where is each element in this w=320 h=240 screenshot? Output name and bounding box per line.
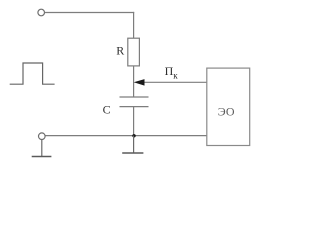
pulse waveform symbol [10, 63, 55, 84]
terminal (bottom-left) [39, 133, 46, 140]
wire top horizontal [45, 12, 135, 14]
wire junction to center ground [133, 136, 135, 153]
svg-text:C: C [103, 102, 111, 116]
bottom wire horizontal [45, 135, 207, 137]
svg-text:R: R [116, 44, 124, 58]
wire ground stem left [41, 140, 43, 157]
ground bar (left) [32, 156, 52, 158]
oscilloscope box EO [207, 68, 250, 145]
arrowhead pointing left at R-C node [134, 79, 145, 86]
wire vertical (top corner to resistor top) [133, 12, 135, 38]
svg-text:ЭО: ЭО [218, 104, 235, 118]
junction node dot [132, 134, 135, 137]
capacitor C top plate [120, 96, 149, 98]
resistor R body [128, 38, 140, 66]
wire capacitor bottom plate to bottom wire [133, 107, 135, 136]
terminal (input, top-left) [38, 9, 45, 16]
wire resistor bottom to capacitor top plate [133, 66, 135, 97]
wire arrow line to oscilloscope [136, 81, 207, 83]
ground bar (center) [122, 152, 143, 154]
capacitor C bottom plate [120, 106, 149, 108]
